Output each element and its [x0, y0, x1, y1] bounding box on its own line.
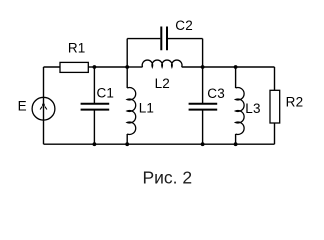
capacitor C1 bottom lead — [93, 110, 95, 144]
svg-text:C1: C1 — [96, 85, 114, 100]
node A junction dot (top of C1) — [93, 65, 97, 69]
capacitor C2 plates — [161, 27, 167, 51]
svg-text:C2: C2 — [175, 18, 193, 33]
node G junction dot (bottom of C3) — [201, 142, 205, 146]
wire node D to top right corner — [236, 66, 275, 68]
wire L2 to node C — [182, 66, 203, 68]
capacitor C2 loop right vertical wire — [202, 39, 204, 67]
wire node A to node B — [94, 66, 127, 68]
node E junction dot (bottom of C1) — [93, 142, 97, 146]
resistor R2 bottom lead — [274, 123, 276, 144]
inductor L3 bottom lead — [235, 134, 237, 144]
svg-text:L2: L2 — [155, 76, 170, 91]
capacitor C3 bottom lead — [202, 110, 204, 144]
inductor L3 coil — [236, 88, 245, 135]
wire bottom rail — [44, 143, 275, 145]
capacitor C3 top lead — [202, 67, 204, 103]
svg-text:R2: R2 — [286, 95, 304, 110]
resistor R2 top lead — [274, 67, 276, 90]
resistor R1 body — [60, 62, 88, 72]
node D junction dot (top of L3) — [234, 65, 238, 69]
capacitor C3 plates — [189, 104, 218, 110]
resistor R2 body — [270, 90, 280, 123]
wire top rail: left corner to R1 — [44, 66, 61, 68]
node F junction dot (bottom of L1) — [125, 142, 129, 146]
inductor L1 top lead — [126, 67, 128, 88]
svg-text:R1: R1 — [68, 40, 86, 55]
node H junction dot (bottom of L3) — [234, 142, 238, 146]
wire R1 to node A — [88, 66, 94, 68]
svg-text:Рис. 2: Рис. 2 — [142, 167, 192, 187]
source E arrow head — [42, 104, 45, 107]
capacitor C1 top lead — [93, 67, 95, 103]
source E arrow barbs — [40, 107, 47, 110]
wire node C to node D — [203, 66, 236, 68]
source E circle — [32, 97, 55, 120]
capacitor C2 loop left vertical wire — [126, 39, 128, 67]
capacitor C2 right lead — [168, 38, 203, 40]
svg-text:E: E — [18, 99, 27, 114]
svg-text:C3: C3 — [207, 86, 225, 101]
inductor L1 bottom lead — [126, 134, 128, 144]
wire left branch vertical (E branch) — [43, 67, 45, 144]
capacitor C1 plates — [81, 104, 110, 110]
inductor L2 coil — [142, 60, 182, 67]
node C junction dot (top of C3 / C2 loop right) — [201, 65, 205, 69]
capacitor C2 left lead — [127, 38, 160, 40]
svg-text:L3: L3 — [245, 101, 260, 116]
inductor L3 top lead — [235, 67, 237, 88]
node B junction dot (top of L1 / C2 loop left) — [125, 65, 129, 69]
inductor L1 coil — [127, 88, 136, 135]
wire node B to L2 — [127, 66, 142, 68]
svg-text:L1: L1 — [139, 101, 154, 116]
